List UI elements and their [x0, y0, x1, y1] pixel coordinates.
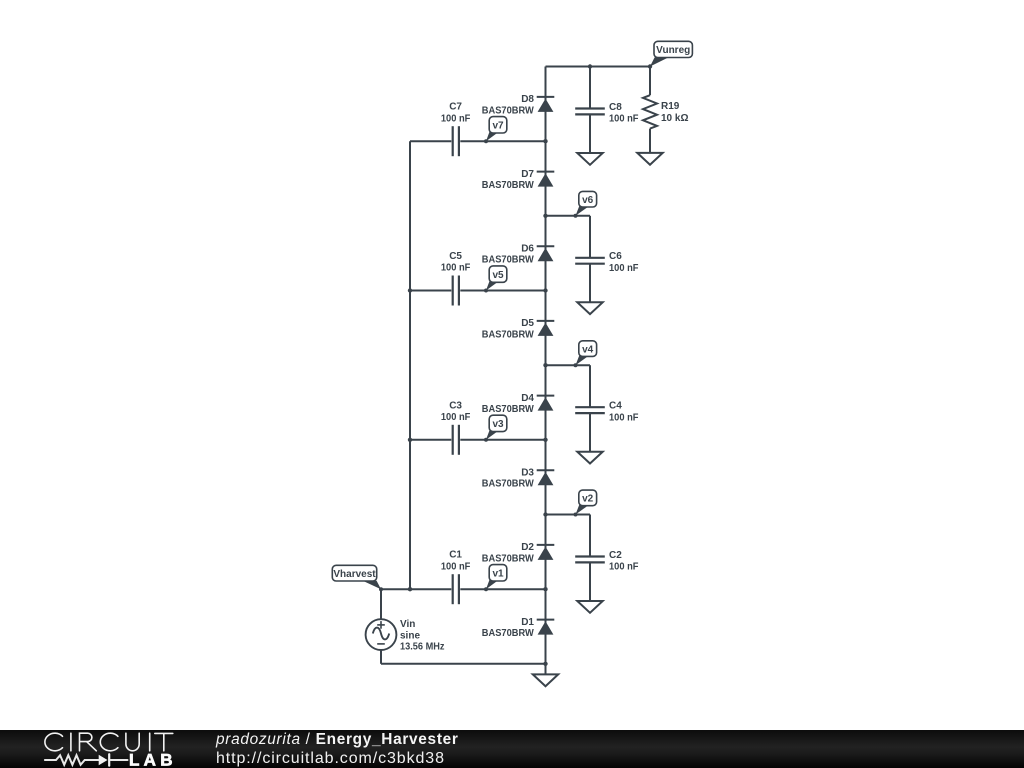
svg-text:C5: C5: [449, 251, 462, 262]
svg-text:BAS70BRW: BAS70BRW: [482, 255, 535, 266]
svg-text:http://circuitlab.com/c3bkd38: http://circuitlab.com/c3bkd38: [216, 750, 445, 767]
svg-text:v7: v7: [492, 121, 504, 132]
svg-text:C4: C4: [609, 401, 622, 412]
svg-text:D6: D6: [521, 244, 534, 255]
svg-text:100 nF: 100 nF: [609, 263, 639, 274]
svg-text:v4: v4: [582, 344, 594, 355]
svg-text:LAB: LAB: [129, 750, 177, 768]
svg-text:BAS70BRW: BAS70BRW: [482, 628, 535, 639]
svg-text:100 nF: 100 nF: [609, 412, 639, 423]
svg-text:C2: C2: [609, 550, 622, 561]
svg-text:v2: v2: [582, 494, 594, 505]
svg-text:Vunreg: Vunreg: [656, 45, 690, 56]
svg-text:C1: C1: [449, 550, 462, 561]
svg-text:10 kΩ: 10 kΩ: [661, 113, 688, 124]
svg-text:D2: D2: [521, 542, 534, 553]
svg-text:D3: D3: [521, 468, 534, 479]
svg-text:D1: D1: [521, 617, 534, 628]
svg-text:sine: sine: [400, 631, 420, 642]
svg-text:pradozurita / Energy_Harvester: pradozurita / Energy_Harvester: [215, 731, 459, 748]
svg-text:BAS70BRW: BAS70BRW: [482, 553, 535, 564]
svg-text:100 nF: 100 nF: [441, 113, 471, 124]
svg-text:C3: C3: [449, 400, 462, 411]
svg-text:Vin: Vin: [400, 619, 415, 630]
svg-text:v3: v3: [492, 419, 504, 430]
svg-text:Vharvest: Vharvest: [333, 569, 376, 580]
svg-text:D8: D8: [521, 94, 534, 105]
svg-text:BAS70BRW: BAS70BRW: [482, 404, 535, 415]
svg-text:BAS70BRW: BAS70BRW: [482, 105, 535, 116]
svg-text:D5: D5: [521, 318, 534, 329]
svg-text:v5: v5: [492, 270, 504, 281]
svg-text:D4: D4: [521, 393, 534, 404]
svg-text:C6: C6: [609, 251, 622, 262]
svg-text:D7: D7: [521, 169, 534, 180]
svg-text:C7: C7: [449, 102, 462, 113]
svg-text:BAS70BRW: BAS70BRW: [482, 479, 535, 490]
svg-text:13.56 MHz: 13.56 MHz: [400, 641, 445, 652]
svg-text:C8: C8: [609, 102, 622, 113]
svg-text:100 nF: 100 nF: [609, 562, 639, 573]
svg-text:100 nF: 100 nF: [609, 114, 639, 125]
svg-text:R19: R19: [661, 101, 680, 112]
svg-text:BAS70BRW: BAS70BRW: [482, 329, 535, 340]
svg-text:100 nF: 100 nF: [441, 412, 471, 423]
svg-text:100 nF: 100 nF: [441, 561, 471, 572]
svg-text:100 nF: 100 nF: [441, 263, 471, 274]
svg-text:BAS70BRW: BAS70BRW: [482, 180, 535, 191]
svg-text:v6: v6: [582, 195, 594, 206]
svg-text:v1: v1: [492, 569, 504, 580]
